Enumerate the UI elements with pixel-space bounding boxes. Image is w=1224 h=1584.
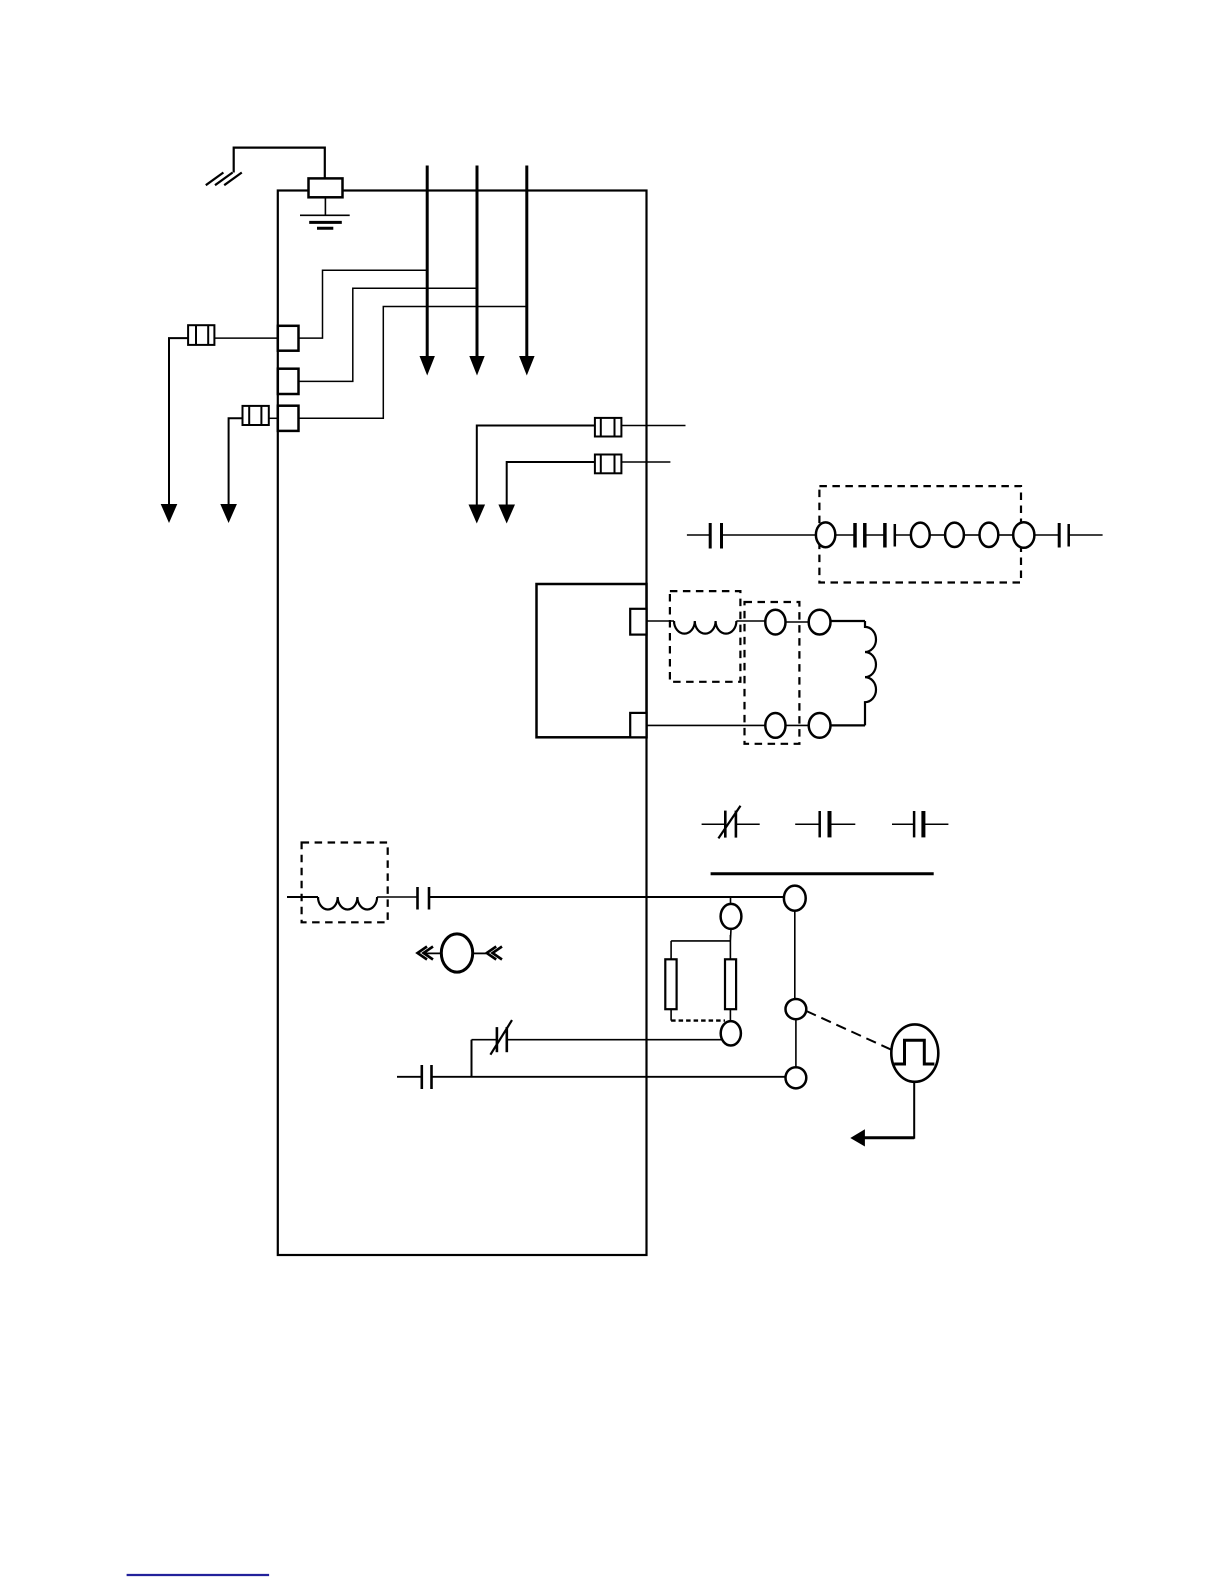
wire	[1034, 534, 1059, 536]
arrowhead pulse output	[850, 1129, 865, 1146]
capacitor C7	[418, 887, 430, 910]
trimmer capacitor CT1	[702, 806, 760, 839]
wire	[998, 534, 1013, 536]
bus line	[711, 872, 934, 875]
terminal circle 2	[911, 523, 930, 547]
capacitor C1	[710, 523, 721, 549]
wire to secondary coil	[831, 620, 866, 622]
earth ground	[300, 215, 350, 228]
wire stub to inductor	[647, 620, 675, 622]
wire circle E to resistors	[671, 929, 731, 959]
wire	[865, 534, 885, 536]
dashed box around L3	[302, 843, 388, 923]
wire junction vertical	[471, 1040, 473, 1077]
wire port2 to arrow line 2	[299, 288, 478, 381]
wire	[1069, 534, 1103, 536]
wire circle G to circle H	[795, 1019, 797, 1067]
wire fuse to earth ground	[324, 197, 326, 215]
wire trimmer line to circle F	[507, 1039, 722, 1041]
wire	[786, 621, 809, 623]
dashed module box on capacitor chain	[819, 486, 1021, 582]
inductor L3	[318, 897, 377, 910]
wire pulse output horizontal thick	[864, 1136, 914, 1139]
fuse F0	[309, 178, 343, 197]
dashed box around L1	[670, 591, 741, 682]
arrowhead FB	[498, 505, 515, 524]
wire R1 bottom	[670, 1009, 672, 1020]
wire top-left to chassis ground	[234, 148, 325, 179]
dashed box around circles A C	[745, 602, 800, 744]
terminal circle 3	[945, 523, 964, 547]
terminal circle 1	[816, 522, 835, 547]
port box 3	[278, 406, 299, 431]
dashed link circle G to pulse generator	[806, 1011, 893, 1051]
wire	[895, 534, 912, 536]
link underline	[127, 1574, 270, 1576]
wire fuse FA left arrow	[477, 426, 595, 505]
wire port1 to arrow line 1	[299, 270, 428, 338]
dashed wire R1 to R2	[671, 1019, 725, 1021]
resistor R1	[665, 959, 676, 1009]
wire fuse FA right	[621, 425, 685, 427]
capacitor C6	[892, 811, 948, 837]
wire	[377, 896, 417, 898]
terminal circle T	[784, 886, 806, 911]
wire fuse FB right	[621, 461, 670, 463]
capacitor C8	[397, 1065, 432, 1089]
pulse generator	[891, 1024, 938, 1081]
wire	[930, 534, 945, 536]
wire circle T to circle G	[794, 911, 796, 999]
wire	[964, 534, 980, 536]
wire C7 to circle T	[429, 896, 784, 898]
fuse FA	[595, 418, 622, 437]
arrowhead F1	[161, 504, 178, 523]
terminal circle F	[721, 1021, 741, 1045]
port box 2	[278, 369, 299, 394]
arrow line 3	[519, 166, 535, 376]
chassis ground	[206, 173, 242, 186]
wire	[722, 534, 818, 536]
wire junction stub to circle E	[730, 897, 732, 905]
terminal circle H	[786, 1067, 807, 1088]
wire lower stub to circle C	[647, 724, 766, 726]
wire fuse F1 to port1	[214, 337, 277, 339]
fuse F2	[243, 406, 269, 425]
terminal circle C	[765, 713, 785, 738]
wire	[736, 620, 765, 622]
RF module solid box	[537, 584, 647, 737]
main enclosure box	[278, 191, 647, 1256]
wire fuse FB left arrow	[507, 462, 595, 505]
arrowhead FA	[469, 505, 486, 524]
arrow line 1	[420, 166, 435, 376]
wire fuse F2 to port3	[269, 417, 278, 419]
wire	[786, 724, 809, 726]
port box 1	[278, 326, 299, 351]
crystal Y1	[418, 934, 503, 972]
terminal circle A	[765, 610, 785, 635]
terminal circle 5	[1013, 522, 1034, 548]
wire	[472, 1039, 497, 1041]
resistor R2	[725, 959, 736, 1009]
terminal circle D	[809, 713, 831, 738]
capacitor C2	[855, 523, 865, 548]
terminal circle G	[786, 999, 807, 1019]
wire port3 to arrow line 3	[299, 307, 527, 419]
port stub upper	[630, 609, 646, 635]
inductor L1	[674, 621, 736, 634]
wire into L3	[287, 896, 318, 898]
capacitor C5	[795, 811, 855, 837]
capacitor C4	[1059, 523, 1069, 548]
secondary coil L2	[865, 621, 876, 725]
fuse F1	[188, 325, 214, 345]
wire fuse F1 left arrow	[169, 338, 188, 504]
wire fuse F2 left arrow	[229, 418, 243, 504]
wire pulse generator output	[866, 1082, 915, 1138]
arrow line 2	[469, 166, 484, 376]
capacitor C3	[885, 523, 895, 548]
wire C8 to circle H	[432, 1076, 787, 1078]
terminal circle E	[721, 904, 742, 929]
trimmer capacitor CT2	[490, 1020, 512, 1055]
wire	[835, 534, 855, 536]
port stub lower	[630, 713, 646, 737]
fuse FB	[595, 455, 622, 474]
arrowhead F2	[220, 504, 237, 523]
terminal circle B	[809, 610, 831, 635]
wire	[831, 724, 866, 726]
wire cap chain left	[687, 534, 710, 536]
wire R2 bottom	[729, 1009, 731, 1021]
terminal circle 4	[980, 523, 999, 547]
